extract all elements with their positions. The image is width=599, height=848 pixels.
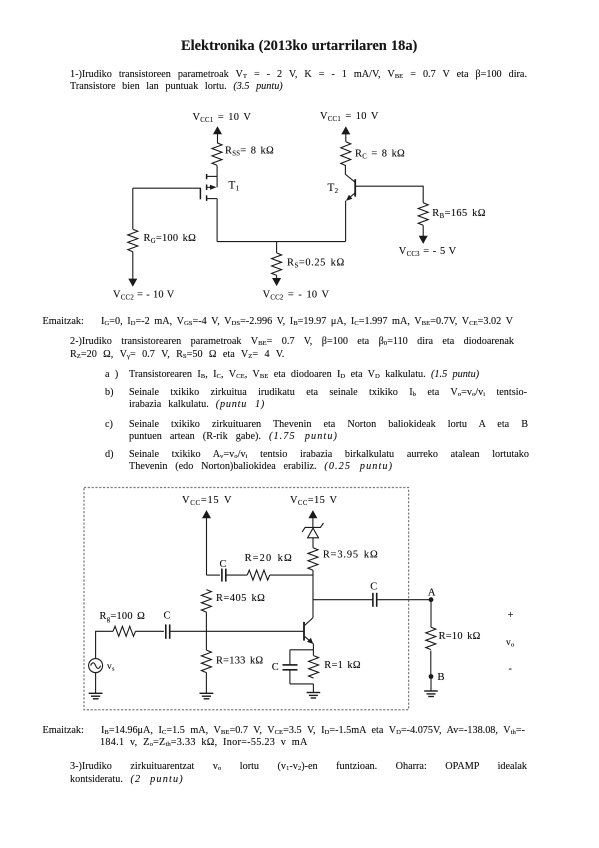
dashed boundary box <box>84 488 409 710</box>
wire gate down to RG <box>132 188 134 229</box>
problem 3 text <box>70 761 527 773</box>
svg-text:vs: vs <box>107 662 115 673</box>
problem 1 text <box>70 69 527 81</box>
wire collector to output cap <box>313 599 373 601</box>
wire RSS to T1 source <box>216 165 218 176</box>
resistor R 3.95k <box>308 548 379 570</box>
svg-text:R=10 kΩ: R=10 kΩ <box>439 631 481 642</box>
svg-text:R=1 kΩ: R=1 kΩ <box>324 660 361 671</box>
svg-text:T2: T2 <box>328 182 339 195</box>
svg-text:RS=0.25 kΩ: RS=0.25 kΩ <box>287 257 345 269</box>
svg-text:VCC2 = - 10 V: VCC2 = - 10 V <box>263 289 330 301</box>
svg-text:VCC3 = - 5 V: VCC3 = - 5 V <box>399 246 457 258</box>
power VCC1 right <box>320 111 379 142</box>
ground emitter <box>307 684 321 698</box>
wire source up <box>96 631 113 658</box>
resistor R 405k <box>201 590 265 612</box>
title <box>181 40 417 52</box>
capacitor C input <box>164 610 171 638</box>
resistor R 1k <box>309 656 361 678</box>
item c <box>105 419 113 431</box>
svg-text:RB=165 kΩ: RB=165 kΩ <box>432 208 486 220</box>
svg-text:B: B <box>437 671 444 683</box>
svg-text:R=133 kΩ: R=133 kΩ <box>216 655 263 666</box>
ground source <box>89 673 103 699</box>
svg-text:R=20 kΩ: R=20 kΩ <box>245 553 293 564</box>
svg-text:T1: T1 <box>229 180 240 193</box>
wire rail to RS <box>276 242 278 253</box>
wire emitter bottom rail <box>290 683 314 685</box>
power VCC2 middle <box>263 275 330 301</box>
resistor R 10k <box>426 627 481 649</box>
svg-text:R=3.95 kΩ: R=3.95 kΩ <box>323 549 379 560</box>
svg-text:RSS= 8 kΩ: RSS= 8 kΩ <box>225 146 274 158</box>
resistor RG <box>128 229 196 251</box>
power VCC1 left <box>193 112 252 143</box>
svg-text:VCC1 = 10 V: VCC1 = 10 V <box>320 111 379 123</box>
svg-text:R=405 kΩ: R=405 kΩ <box>216 593 265 604</box>
zener diode <box>302 517 323 548</box>
resistor RS <box>272 253 345 275</box>
transistor T1 (MOSFET) <box>200 174 239 201</box>
svg-text:RC = 8 kΩ: RC = 8 kΩ <box>355 148 405 160</box>
wire base <box>207 630 305 632</box>
wire cap to R20k <box>226 574 247 576</box>
ground load <box>424 679 438 697</box>
item b <box>105 387 114 399</box>
resistor RC <box>341 142 405 166</box>
svg-text:A: A <box>428 586 436 598</box>
source vs (AC) <box>89 659 115 673</box>
svg-text:VCC1 = 10 V: VCC1 = 10 V <box>193 112 252 124</box>
wire Rg to C <box>136 630 165 632</box>
wire A to R10k <box>430 600 432 627</box>
svg-text:VCC=15 V: VCC=15 V <box>182 495 232 507</box>
emaitzak 1 <box>43 316 84 328</box>
wire feedback left <box>207 574 221 576</box>
svg-text:Rg=100 Ω: Rg=100 Ω <box>100 611 146 623</box>
power VCC2 left <box>113 252 175 302</box>
wire T2 emitter down <box>345 201 347 242</box>
wire bottom rail <box>217 241 345 243</box>
node A <box>428 586 436 602</box>
item d <box>105 449 114 461</box>
wire T1 drain down <box>216 199 218 242</box>
wire 405k to base node <box>205 612 207 650</box>
transistor Q1 (BJT) <box>304 618 313 656</box>
item a <box>105 369 118 381</box>
power VCC left <box>182 495 232 575</box>
wire gate <box>133 187 201 189</box>
wire collector line vertical <box>312 570 314 617</box>
capacitor C feedback <box>220 559 227 582</box>
resistor RB <box>418 203 486 225</box>
emaitzak 2 <box>43 725 84 737</box>
resistor Rg 100 <box>100 611 146 636</box>
svg-text:-: - <box>509 664 513 675</box>
resistor RSS <box>212 143 274 165</box>
power VCC3 <box>399 225 457 258</box>
wire C to base node <box>170 630 207 632</box>
svg-text:VCC=15 V: VCC=15 V <box>290 495 338 507</box>
svg-text:+: + <box>508 610 514 621</box>
wire R20k to collector line <box>270 574 313 576</box>
resistor R 20k <box>245 553 293 580</box>
svg-text:VCC2 = - 10 V: VCC2 = - 10 V <box>113 289 175 301</box>
transistor T2 (BJT) <box>328 166 356 201</box>
capacitor C output <box>370 581 377 606</box>
problem 2 text <box>70 336 514 348</box>
wire R10k to node B <box>430 651 432 677</box>
resistor R 133k <box>201 650 263 672</box>
svg-text:C: C <box>220 559 227 570</box>
svg-text:vo: vo <box>506 638 515 649</box>
power VCC right <box>290 495 338 519</box>
wire T2 base to RB <box>356 186 423 203</box>
node B <box>429 671 445 683</box>
svg-text:C: C <box>370 581 377 592</box>
svg-text:C: C <box>272 662 279 673</box>
svg-text:C: C <box>164 610 171 621</box>
ground left <box>200 673 214 699</box>
wire emitter top rail <box>290 649 314 651</box>
wire cap to node A <box>377 599 431 601</box>
svg-text:RG=100 kΩ: RG=100 kΩ <box>144 233 197 245</box>
capacitor C emitter bypass <box>272 650 298 684</box>
